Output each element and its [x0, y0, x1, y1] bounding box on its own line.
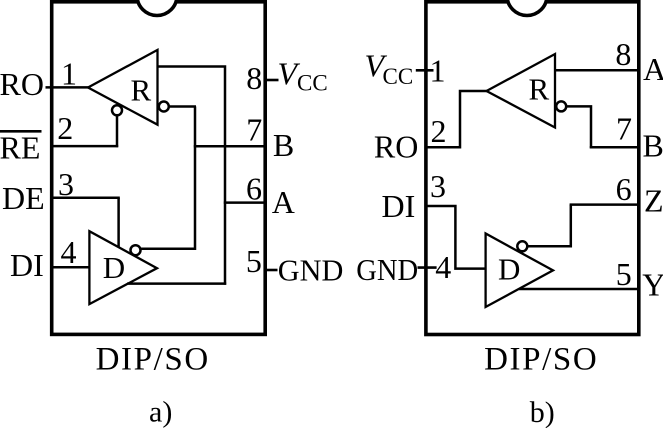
svg-text:B: B — [273, 127, 294, 163]
svg-text:A: A — [272, 184, 295, 220]
wire R bubble to node B vertical — [169, 105, 196, 108]
wire D bubble to pin 6 (Z) — [528, 205, 571, 247]
svg-text:DI: DI — [10, 247, 44, 283]
inverting output bubble on D (b) — [517, 241, 527, 251]
svg-text:D: D — [103, 250, 125, 285]
svg-text:3: 3 — [58, 166, 74, 202]
notch (pin-1 index mark) on package b — [507, 0, 547, 16]
svg-text:2: 2 — [431, 113, 447, 149]
svg-text:RE: RE — [0, 130, 40, 166]
pin 7 wire (B) — [194, 145, 267, 148]
svg-text:3: 3 — [430, 168, 446, 204]
IC package U-a (DIP/SO body, diagram a) — [52, 2, 266, 335]
pin 5 stub dash (GND) — [265, 269, 278, 272]
svg-text:DI: DI — [382, 188, 416, 224]
pin 4 wire (DI) — [50, 266, 91, 269]
svg-text:CC: CC — [297, 71, 328, 96]
notch (pin-1 index mark) on package a — [137, 0, 177, 16]
wire R bubble to pin 7 — [566, 106, 591, 148]
wire D output to node A vertical — [127, 282, 226, 285]
svg-text:1: 1 — [430, 52, 446, 88]
driver op-amp D (a) — [89, 231, 157, 304]
receiver op-amp R (b) — [487, 54, 556, 128]
svg-text:CC: CC — [383, 64, 414, 89]
svg-text:7: 7 — [246, 112, 262, 148]
wire R top input to node A vertical — [158, 67, 226, 285]
enable bubble on R (a) — [112, 105, 122, 115]
pin 5 wire (Y, b) from D output — [519, 288, 640, 291]
svg-text:1: 1 — [61, 56, 77, 92]
svg-text:6: 6 — [246, 170, 262, 206]
svg-text:4: 4 — [61, 234, 77, 270]
svg-text:Y: Y — [642, 266, 663, 302]
pin 6 wire (Z, b) — [570, 203, 640, 206]
svg-text:b): b) — [530, 396, 555, 428]
svg-text:2: 2 — [57, 110, 73, 146]
svg-text:5: 5 — [246, 243, 262, 279]
wire DE down to driver D top edge — [117, 198, 120, 249]
pin 1 stub dash (VCC, b) — [416, 69, 434, 72]
svg-text:6: 6 — [616, 171, 632, 207]
pin 2 wire (RO, b) — [427, 91, 487, 147]
pin 4 stub dash (GND, b) — [418, 266, 437, 269]
svg-text:D: D — [498, 252, 520, 287]
pin 3 wire (DE) — [50, 197, 120, 200]
pin 2 wire (RE) — [50, 145, 118, 148]
svg-text:R: R — [131, 73, 152, 108]
svg-text:8: 8 — [246, 60, 262, 96]
pin 8 stub dash (VCC) — [266, 79, 279, 82]
svg-text:DE: DE — [2, 180, 45, 216]
inverting output bubble on D (a) — [131, 245, 141, 255]
pin 3 wire (DI, b) — [427, 206, 486, 269]
wire D bubble to node B vertical — [141, 107, 195, 249]
svg-text:B: B — [643, 128, 663, 164]
svg-text:5: 5 — [616, 256, 632, 292]
pin 1 wire (RO) — [46, 86, 90, 89]
pin 6 wire (A) — [224, 201, 267, 204]
svg-text:R: R — [529, 72, 550, 107]
svg-text:DIP/SO: DIP/SO — [484, 342, 598, 378]
svg-text:GND: GND — [356, 252, 418, 287]
overline of RE — [0, 130, 42, 133]
svg-text:RO: RO — [374, 129, 418, 165]
svg-text:8: 8 — [615, 36, 631, 72]
svg-text:GND: GND — [278, 252, 344, 287]
wire enable bubble to pin 2 — [116, 116, 119, 148]
driver op-amp D (b) — [486, 234, 553, 308]
svg-text:A: A — [643, 51, 663, 87]
svg-text:7: 7 — [616, 110, 632, 146]
svg-text:DIP/SO: DIP/SO — [96, 342, 210, 378]
IC package U-b (DIP/SO body, diagram b) — [426, 2, 639, 335]
pin 8 wire (A, b) — [555, 69, 640, 72]
pin 7 wire (B, b) — [590, 146, 640, 149]
svg-text:Z: Z — [644, 183, 663, 219]
inverting input bubble on R (b) — [556, 101, 566, 111]
receiver op-amp R (a) — [88, 50, 158, 125]
svg-text:RO: RO — [0, 66, 44, 102]
svg-text:4: 4 — [435, 249, 451, 285]
inverting input bubble on R (a) — [159, 102, 169, 112]
svg-text:a): a) — [149, 395, 172, 428]
